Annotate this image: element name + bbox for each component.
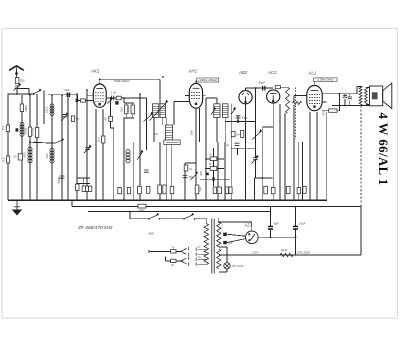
coil L2: [50, 148, 54, 163]
resistor R41: [225, 187, 228, 194]
winding hatch: [160, 105, 166, 107]
capacitor C25 50uF solid: [67, 92, 68, 97]
trimmer capacitor C22: [85, 148, 90, 150]
wire vertical x294: [293, 105, 295, 200]
svg-text:465: 465: [23, 152, 27, 157]
trimmer arrow C4: [61, 113, 68, 121]
winding hatch: [214, 109, 220, 111]
winding hatch: [166, 137, 173, 139]
winding hatch: [214, 107, 220, 109]
wire to OT: [357, 86, 361, 88]
label box 130Hz-20kHz: [197, 78, 219, 82]
wire AZ1 cathode out: [258, 236, 295, 238]
resistor R11: [89, 186, 92, 191]
wire to lamp: [226, 247, 228, 263]
wire: [110, 121, 112, 128]
wire vertical x103: [102, 109, 104, 200]
coil L6 oscillator grid: [50, 104, 54, 116]
winding hatch: [223, 107, 229, 109]
wire: [205, 158, 224, 160]
svg-text:3000: 3000: [24, 105, 28, 112]
winding hatch: [166, 132, 173, 134]
wire: [219, 254, 220, 256]
resistor R27 grid leak: [275, 86, 280, 89]
svg-text:(130Hz-20kHz): (130Hz-20kHz): [198, 78, 217, 82]
resistor R42: [102, 136, 105, 143]
switch blade S4: [184, 213, 194, 218]
junction: [344, 105, 346, 107]
wire vertical x231.3: [230, 103, 232, 200]
wire: [153, 118, 155, 143]
output transformer T3 secondary: [365, 88, 368, 105]
wire: [77, 95, 79, 101]
tube AC2 U4 triode: [267, 90, 280, 103]
wire vertical x254.5: [254, 178, 256, 200]
svg-text:50µF: 50µF: [65, 89, 71, 92]
tube AL1 U5 output pentode: [307, 86, 322, 111]
resistor R25: [184, 165, 188, 171]
junction: [148, 218, 150, 220]
wire det: [231, 148, 255, 150]
resistor R34b: [210, 167, 217, 171]
wire AC2 anode link: [280, 86, 287, 88]
wire tap: [198, 263, 207, 265]
wire: [28, 89, 30, 95]
tube AK2 U1: [93, 84, 106, 107]
wire AL1 side: [322, 101, 326, 103]
switch blade S5: [55, 139, 64, 144]
junction: [139, 93, 141, 95]
junction on bus: [309, 199, 311, 201]
wire: [337, 110, 339, 112]
wire: [344, 99, 346, 105]
band switch S2: [164, 140, 180, 145]
wire: [162, 118, 164, 126]
wire stub: [237, 149, 239, 155]
resistor R22: [271, 188, 275, 194]
wire: [160, 218, 185, 220]
junction on bus: [139, 199, 141, 201]
wire bottom return: [220, 254, 361, 256]
fuse F1: [171, 250, 176, 253]
wire: [360, 86, 361, 88]
coil L7 antenna: [20, 122, 24, 136]
wire vertical x225: [224, 142, 226, 200]
winding hatch: [153, 107, 159, 109]
wire vertical x262.7: [262, 127, 264, 200]
wire vertical x218: [217, 142, 219, 200]
junction: [61, 94, 63, 96]
svg-text:AC2: AC2: [267, 70, 277, 75]
wire plate line: [322, 93, 357, 95]
wire vertical x52: [51, 95, 53, 200]
wire: [206, 97, 217, 99]
capacitor C26 solid: [76, 99, 79, 102]
wire to tuning line: [121, 97, 146, 99]
resistor R14: [131, 105, 134, 114]
power transformer T4 secondary HV: [217, 222, 221, 247]
wire tap: [198, 248, 207, 250]
wire: [224, 118, 226, 143]
wire: [176, 250, 181, 252]
resistor R15: [109, 116, 113, 121]
capacitor C9 cathode: [183, 176, 188, 178]
wire cap drop: [270, 207, 272, 227]
junction: [183, 218, 185, 220]
svg-text:4V, CNA: 4V, CNA: [232, 264, 243, 268]
potentiometer arrow volume: [252, 130, 261, 139]
capacitor C6 2nF: [112, 96, 114, 101]
pilot lamp LA1: [224, 263, 230, 269]
junction: [86, 89, 88, 91]
wire right drop: [360, 207, 362, 256]
resistor R9: [75, 184, 79, 190]
resistor R18: [158, 185, 162, 194]
wire: [237, 116, 239, 122]
svg-text:Netz: Netz: [281, 248, 288, 252]
resistor R3: [20, 104, 23, 112]
wire to AK2 grid: [78, 100, 93, 102]
svg-text:50µµF: 50µµF: [258, 82, 265, 85]
wire vertical x140: [139, 94, 141, 200]
wire AB2 top: [245, 88, 247, 91]
wire: [132, 103, 134, 105]
svg-text:7000-20kHz: 7000-20kHz: [114, 79, 131, 83]
switch blade: [181, 248, 187, 251]
svg-text:150: 150: [154, 133, 159, 136]
resistor R38: [303, 186, 306, 193]
junction on bus: [170, 199, 172, 201]
wire tap: [198, 258, 207, 260]
svg-text:468: 468: [149, 232, 154, 236]
junction: [255, 87, 257, 89]
wire vertical x245.5: [245, 104, 247, 200]
wire AH1 anode: [203, 95, 206, 97]
wire vertical x298.8: [298, 142, 300, 200]
resistor R39: [82, 186, 85, 191]
junction on bus: [293, 199, 295, 201]
wire band link: [30, 142, 55, 143]
junction on bus: [284, 199, 286, 201]
wire B+ feed dashed: [360, 106, 362, 207]
svg-text:16µF: 16µF: [299, 222, 306, 226]
resistor R24: [297, 188, 300, 194]
capacitor C1 antenna: [15, 78, 19, 84]
coil L5 choke: [286, 87, 290, 113]
wire: [123, 98, 125, 103]
svg-text:0,1: 0,1: [1, 126, 5, 131]
wire cluster bar: [77, 177, 90, 179]
capacitor C3 block: [6, 125, 9, 132]
switch blade: [181, 258, 187, 261]
wire mains: [130, 218, 149, 220]
capacitor C7: [144, 170, 149, 172]
resistor R30 Netz dropper: [280, 253, 293, 256]
junction: [261, 177, 263, 179]
resistor R35: [127, 188, 130, 194]
winding hatch: [214, 114, 220, 116]
wire: [366, 104, 370, 106]
junction: [29, 94, 31, 96]
wire coupling: [246, 87, 274, 89]
wire drop to IFT1: [159, 79, 161, 104]
contact column: [195, 248, 197, 266]
terminal: [148, 251, 150, 253]
capacitor C8 block: [170, 186, 174, 194]
rectifier tube AZ1 U6: [246, 231, 259, 244]
wire: [83, 178, 85, 186]
wire vertical x326.3: [325, 112, 327, 200]
filament blob: [223, 241, 227, 244]
junction: [33, 93, 35, 95]
winding hatch: [153, 114, 159, 116]
wire: [338, 94, 340, 111]
wire AL1 top lead: [313, 81, 315, 85]
wire top link: [100, 78, 160, 80]
svg-text:5000: 5000: [57, 176, 61, 183]
junction: [270, 236, 272, 238]
junction on bus: [86, 199, 88, 201]
wire: [125, 114, 127, 118]
wire riser: [164, 257, 166, 261]
capacitor C17 8uF electrolytic: [268, 226, 273, 229]
junction on bus: [261, 199, 263, 201]
svg-text:40: 40: [104, 117, 108, 121]
svg-text:250: 250: [20, 79, 25, 83]
wire: [295, 229, 297, 255]
svg-text:3113: 3113: [44, 106, 48, 113]
resistor R21: [264, 186, 268, 194]
wire vertical x8: [7, 94, 9, 200]
wire: [129, 212, 131, 219]
svg-text:0,5: 0,5: [1, 157, 5, 162]
wire vertical x113.8: [113, 140, 115, 200]
winding hatch: [214, 105, 220, 107]
wire vertical x185: [184, 163, 186, 200]
fuse F2: [171, 259, 176, 262]
wire vertical x37: [36, 94, 38, 200]
winding hatch: [166, 134, 173, 136]
winding hatch: [160, 107, 166, 109]
junction on bus: [272, 199, 274, 201]
wire cap drop: [295, 207, 297, 227]
wire vertical x310: [309, 112, 311, 200]
junction blob: [237, 120, 239, 122]
wire vertical x30: [29, 95, 31, 200]
wire AH1 second lead: [199, 108, 201, 142]
wire filament: [227, 239, 246, 243]
winding hatch: [153, 109, 159, 111]
power transformer T4 primary: [204, 224, 209, 265]
resistor R40: [241, 130, 244, 137]
coil L3 box: [166, 125, 173, 140]
resistor R16: [118, 188, 122, 194]
wire bottom line: [332, 105, 370, 107]
wire vertical x77: [76, 93, 78, 200]
svg-text:8µF: 8µF: [274, 222, 279, 226]
junction on bus: [159, 199, 161, 201]
trimmer capacitor C4: [62, 115, 67, 117]
resistor R13: [125, 105, 128, 114]
winding hatch: [223, 109, 229, 111]
junction blob: [206, 173, 209, 176]
wire osc: [48, 94, 78, 96]
resistor R34a: [210, 157, 217, 161]
winding hatch: [160, 114, 166, 116]
svg-text:AH1: AH1: [188, 69, 198, 74]
junction: [162, 76, 164, 78]
wire pair top: [124, 102, 134, 104]
resistor R28: [293, 101, 302, 104]
wire AK2 side stub: [87, 94, 93, 96]
wire: [185, 162, 196, 164]
resistor R19: [163, 185, 166, 194]
wire: [173, 101, 175, 125]
capacitor C11: [235, 143, 240, 145]
junction blob: [212, 177, 214, 181]
wire: [167, 141, 179, 143]
junction on bus: [216, 199, 218, 201]
IF transformer T2 secondary: [223, 104, 229, 118]
svg-text:AB2: AB2: [238, 70, 248, 75]
trimmer arrow: [231, 107, 236, 114]
resistor R23: [286, 186, 290, 194]
wire: [195, 218, 208, 220]
wire tap: [198, 253, 207, 255]
svg-text:515: 515: [120, 107, 124, 112]
wire vertical x196: [195, 108, 197, 200]
wire vertical x62: [61, 95, 63, 200]
junction: [29, 142, 31, 144]
wire vertical x317: [316, 112, 318, 200]
junction: [129, 211, 131, 213]
svg-text:AK2: AK2: [90, 69, 100, 74]
switch blade S1: [33, 89, 41, 94]
wire: [200, 178, 230, 180]
wire: [165, 118, 167, 126]
label box 130Hz-2kHz: [314, 78, 338, 82]
junction: [123, 97, 125, 99]
tuning arrow T1: [150, 100, 168, 120]
svg-text:1750-2500: 1750-2500: [297, 250, 311, 254]
wire AH1 top lead: [195, 81, 197, 84]
wire: [110, 98, 112, 116]
junction: [159, 218, 161, 220]
wire AL1 grid: [294, 95, 307, 97]
junction: [218, 221, 220, 223]
junction on bus: [102, 199, 104, 201]
wire vertical x68: [67, 93, 69, 200]
junction on bus: [195, 199, 197, 201]
svg-text:5µF: 5µF: [198, 186, 202, 191]
wire: [270, 229, 272, 237]
switch blade S3: [149, 213, 159, 218]
wire: [216, 98, 218, 104]
winding hatch: [166, 129, 173, 131]
filament blob: [223, 233, 227, 236]
svg-text:(130Hz-2kHz): (130Hz-2kHz): [317, 78, 333, 82]
resistor R10: [85, 186, 88, 191]
wire: [293, 96, 295, 104]
junction: [99, 78, 101, 80]
svg-text:50µµ: 50µµ: [242, 116, 248, 120]
trimmer arrow C22: [84, 145, 91, 153]
wire vertical x160: [159, 142, 161, 200]
wire vertical x206: [205, 98, 207, 200]
wire heater tap: [219, 246, 227, 248]
capacitor C5: [60, 176, 65, 178]
switch blade: [181, 261, 187, 264]
capacitor C10 50pF: [236, 116, 241, 118]
wire vertical x273.2: [272, 103, 274, 200]
wire: [145, 98, 147, 150]
winding hatch: [166, 127, 173, 129]
resistor R36: [147, 186, 150, 193]
wire vertical x166.3: [165, 140, 167, 200]
coil L1 oscillator: [28, 147, 32, 163]
svg-text:705: 705: [322, 111, 326, 116]
svg-text:0,1: 0,1: [189, 167, 193, 171]
wire: [255, 160, 257, 178]
svg-text:47k: 47k: [199, 171, 203, 176]
wire AK2 anode out: [107, 97, 124, 99]
wire: [113, 128, 115, 142]
svg-text:0,3: 0,3: [96, 137, 100, 142]
junction on bus: [244, 199, 246, 201]
wire filament: [227, 234, 246, 236]
wire HV to AZ1: [219, 221, 252, 223]
svg-text:2 nF: 2 nF: [111, 91, 117, 95]
wire vertical x22: [21, 95, 23, 200]
wire vertical x133.8: [133, 142, 135, 200]
svg-text:5000: 5000: [23, 127, 27, 134]
coil L4 padder: [126, 150, 130, 163]
wire: [111, 127, 114, 129]
potentiometer arrow: [252, 155, 259, 163]
ground: [12, 200, 22, 216]
junction on bus: [224, 199, 226, 201]
winding hatch: [214, 112, 220, 114]
wire selector row2: [165, 260, 170, 262]
svg-text:1500: 1500: [139, 209, 145, 212]
wire antenna bend: [17, 88, 29, 90]
wire: [176, 260, 181, 262]
wire detector: [225, 121, 256, 123]
wire dashed link: [295, 88, 297, 139]
svg-text:4 W 66/AL 1: 4 W 66/AL 1: [376, 112, 390, 185]
resistor R26 1M: [231, 131, 235, 136]
switch arrow: [137, 150, 143, 159]
resistor R8: [71, 116, 74, 122]
main ground bus: [8, 199, 327, 201]
junction on bus: [36, 199, 38, 201]
IF transformer T2 primary: [214, 104, 220, 118]
wire vertical x96: [95, 109, 97, 200]
svg-text:1M: 1M: [236, 133, 240, 137]
svg-text:2µ: 2µ: [226, 143, 229, 147]
svg-text:1µF: 1µF: [228, 242, 233, 245]
switch arrow: [107, 97, 113, 103]
winding hatch: [160, 109, 166, 111]
output transformer T3 primary: [359, 86, 362, 106]
wire pot track: [255, 88, 257, 158]
resistor R17: [138, 186, 142, 194]
svg-text:35k: 35k: [190, 130, 194, 135]
resistor R1 grid stopper: [81, 99, 86, 102]
junction on bus: [61, 199, 63, 201]
svg-text:545: 545: [126, 107, 130, 112]
resistor R6: [35, 128, 38, 138]
